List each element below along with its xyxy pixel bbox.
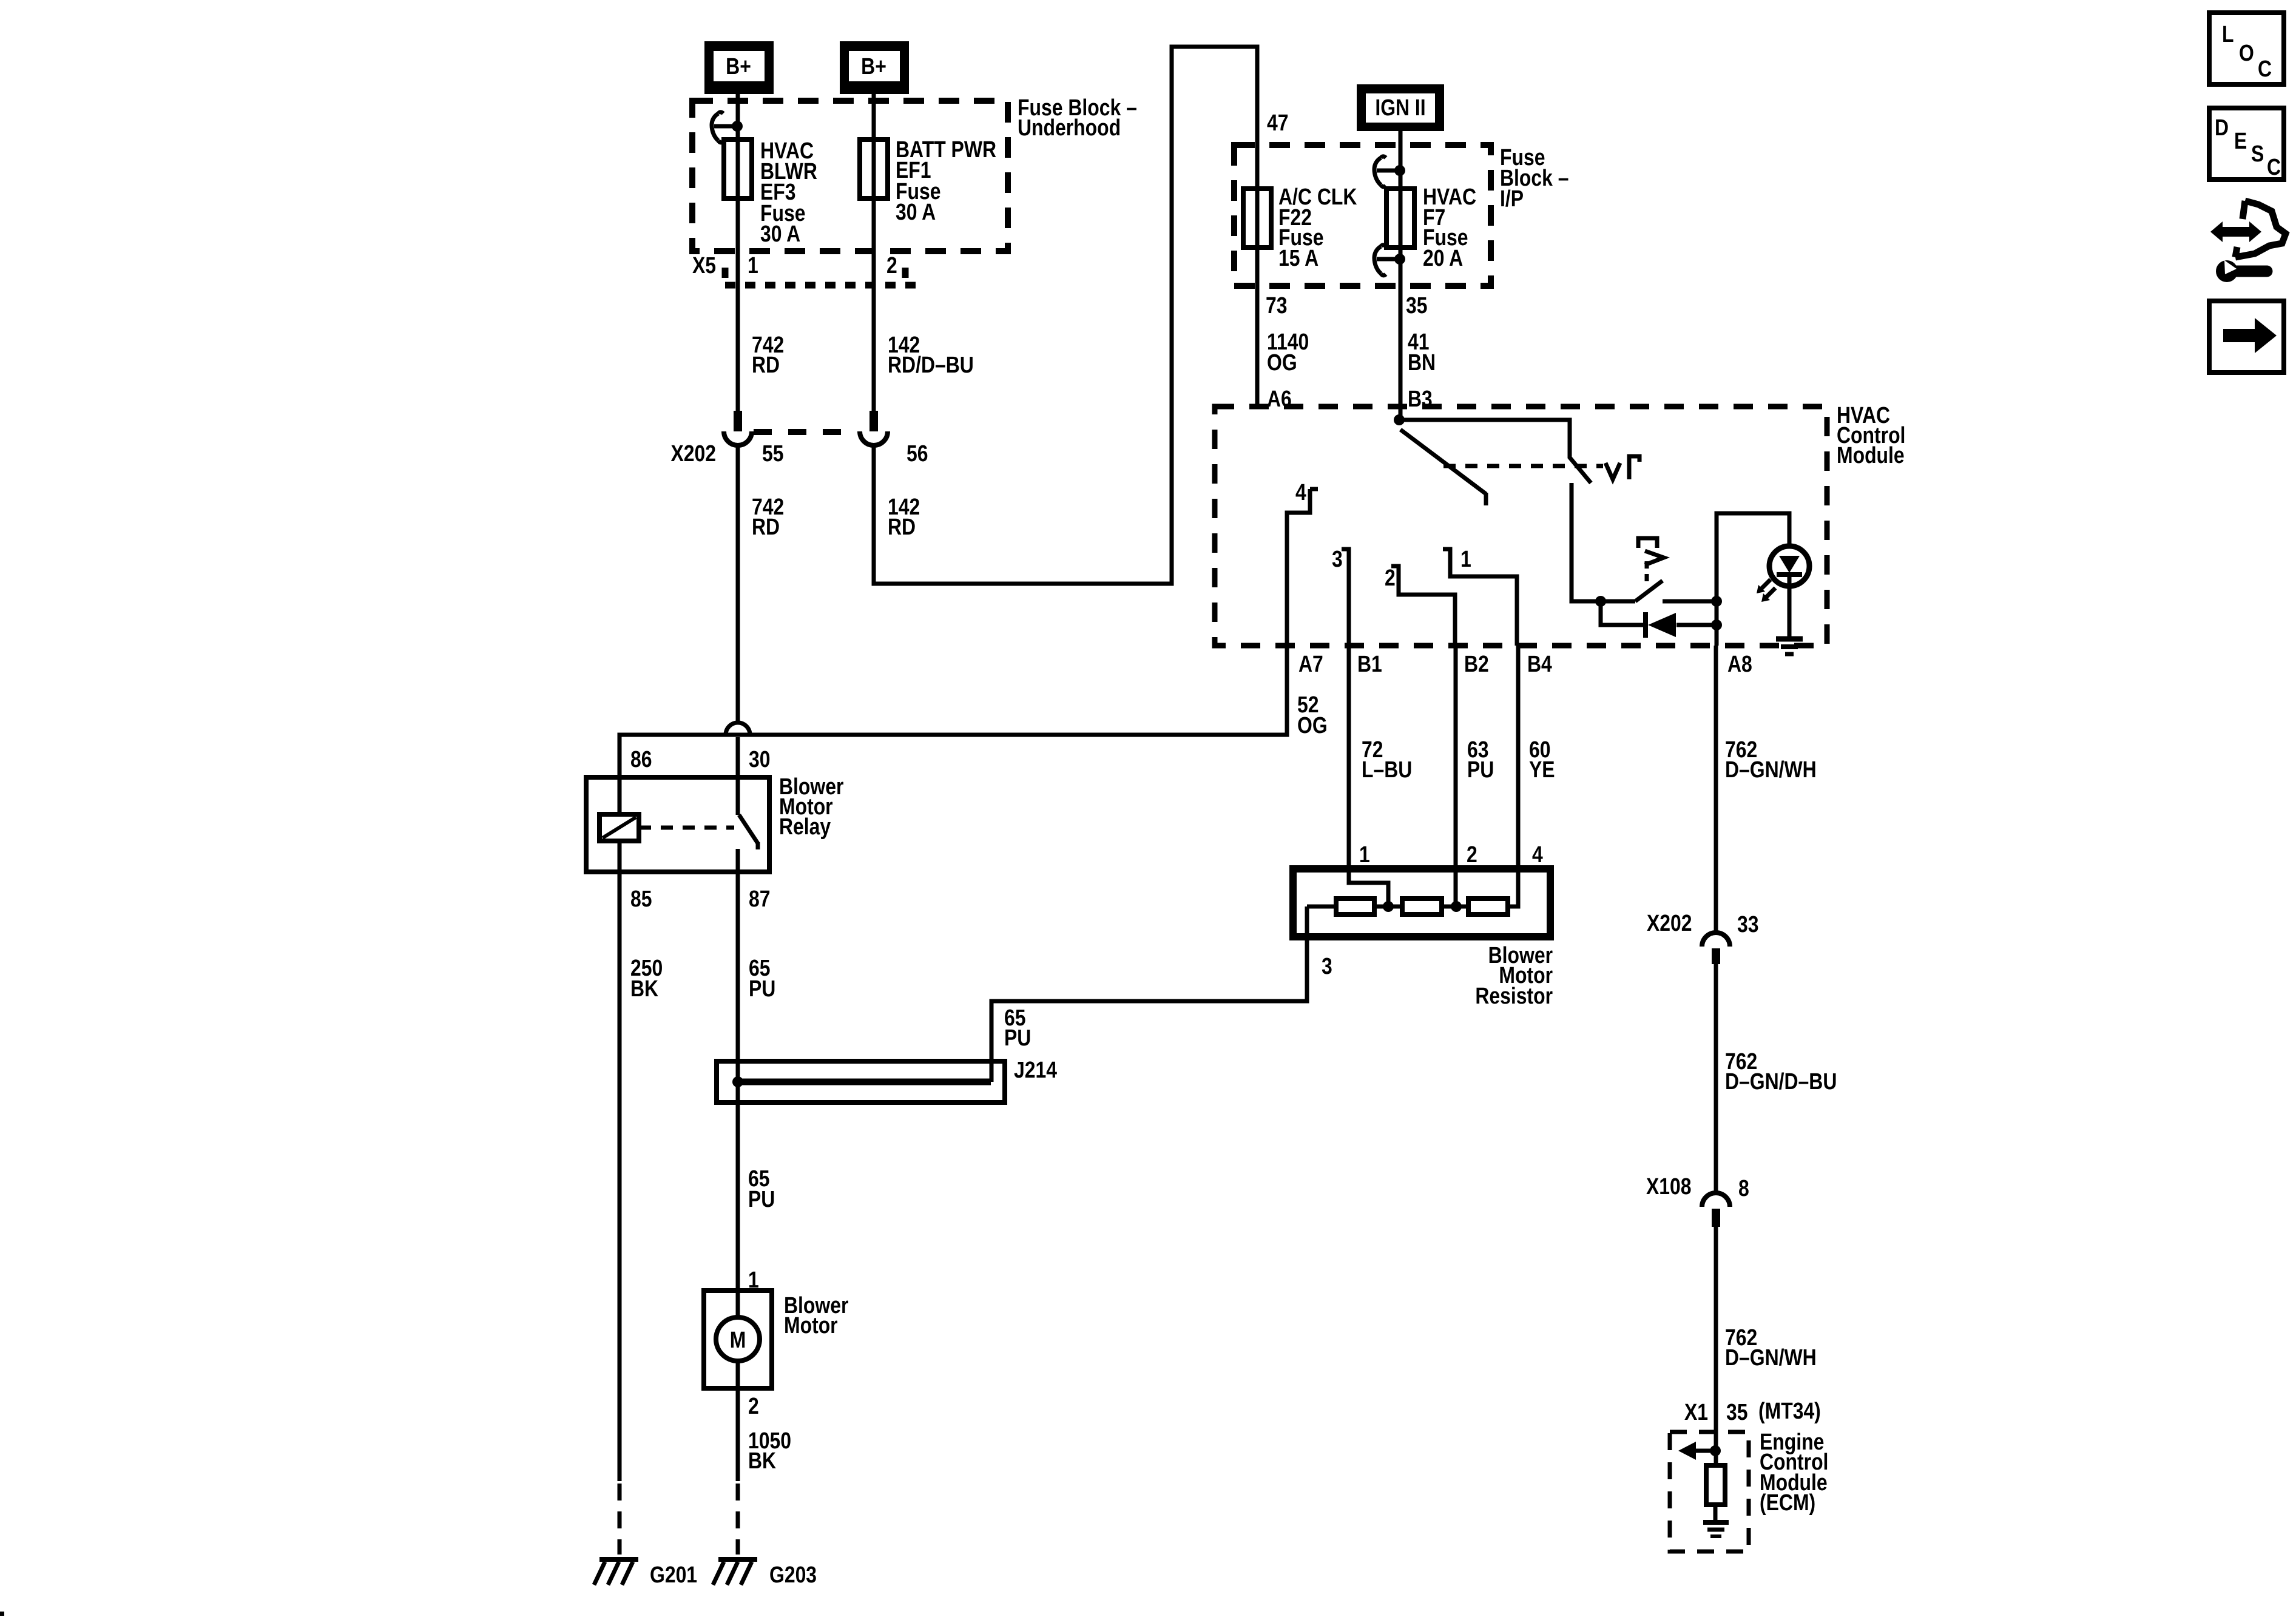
svg-text:S: S — [2251, 141, 2264, 166]
svg-text:IGN II: IGN II — [1375, 95, 1425, 120]
svg-text:35: 35 — [1726, 1399, 1748, 1425]
svg-text:D–GN/WH: D–GN/WH — [1725, 757, 1817, 782]
svg-text:47: 47 — [1267, 110, 1289, 135]
svg-text:O: O — [2239, 40, 2254, 66]
svg-text:L: L — [2222, 21, 2234, 47]
svg-text:RD: RD — [752, 514, 780, 539]
svg-text:B2: B2 — [1464, 651, 1489, 677]
svg-text:4: 4 — [1532, 842, 1543, 867]
svg-text:3: 3 — [1322, 953, 1332, 979]
svg-text:PU: PU — [1467, 757, 1494, 782]
svg-text:87: 87 — [749, 886, 771, 911]
svg-text:A8: A8 — [1727, 651, 1752, 677]
svg-text:YE: YE — [1529, 757, 1555, 782]
svg-text:2: 2 — [748, 1393, 759, 1419]
svg-text:30 A: 30 A — [896, 199, 936, 224]
svg-text:1: 1 — [1359, 842, 1370, 867]
svg-text:Resistor: Resistor — [1475, 983, 1553, 1008]
svg-text:B+: B+ — [861, 53, 886, 79]
svg-text:PU: PU — [1004, 1025, 1031, 1050]
svg-text:L–BU: L–BU — [1362, 757, 1412, 782]
svg-text:30: 30 — [749, 746, 771, 772]
svg-text:B+: B+ — [726, 53, 751, 79]
svg-text:OG: OG — [1297, 712, 1328, 738]
svg-text:20 A: 20 A — [1423, 245, 1463, 271]
svg-text:1: 1 — [1460, 546, 1471, 572]
svg-text:1: 1 — [748, 252, 758, 278]
svg-text:RD/D–BU: RD/D–BU — [888, 352, 974, 377]
svg-text:C: C — [2258, 56, 2272, 81]
svg-text:BK: BK — [630, 976, 658, 1001]
svg-text:PU: PU — [749, 976, 775, 1001]
svg-text:OG: OG — [1267, 349, 1297, 375]
svg-text:X5: X5 — [692, 252, 716, 278]
svg-text:15 A: 15 A — [1278, 245, 1319, 271]
svg-text:G201: G201 — [650, 1562, 697, 1587]
svg-text:3: 3 — [1332, 546, 1343, 572]
svg-text:B1: B1 — [1357, 651, 1382, 677]
svg-text:30 A: 30 A — [760, 221, 800, 246]
svg-text:D–GN/WH: D–GN/WH — [1725, 1345, 1817, 1370]
svg-text:A7: A7 — [1298, 651, 1323, 677]
svg-text:Underhood: Underhood — [1018, 115, 1121, 140]
svg-text:C: C — [2267, 154, 2281, 180]
svg-text:4: 4 — [1295, 479, 1306, 505]
svg-text:I/P: I/P — [1500, 186, 1524, 211]
svg-text:55: 55 — [762, 441, 784, 466]
svg-text:(MT34): (MT34) — [1758, 1398, 1821, 1423]
svg-text:J214: J214 — [1014, 1057, 1057, 1082]
svg-text:BN: BN — [1408, 349, 1436, 375]
svg-text:X1: X1 — [1684, 1399, 1708, 1425]
svg-text:86: 86 — [630, 746, 652, 772]
svg-text:56: 56 — [907, 441, 928, 466]
svg-text:85: 85 — [630, 886, 652, 911]
svg-text:Module: Module — [1837, 442, 1905, 468]
svg-text:RD: RD — [752, 352, 780, 377]
svg-text:2: 2 — [886, 252, 897, 278]
svg-text:RD: RD — [888, 514, 916, 539]
svg-text:Relay: Relay — [779, 814, 831, 839]
svg-text:35: 35 — [1406, 292, 1428, 318]
svg-text:X202: X202 — [1647, 910, 1692, 936]
svg-text:D: D — [2215, 115, 2229, 140]
svg-text:E: E — [2234, 128, 2247, 154]
svg-text:BK: BK — [748, 1448, 776, 1473]
svg-text:2: 2 — [1467, 842, 1477, 867]
svg-text:G203: G203 — [769, 1562, 817, 1587]
svg-text:X108: X108 — [1646, 1173, 1692, 1199]
svg-text:8: 8 — [1738, 1175, 1749, 1201]
svg-text:2: 2 — [1385, 565, 1396, 590]
svg-text:Motor: Motor — [784, 1312, 838, 1338]
svg-text:D–GN/D–BU: D–GN/D–BU — [1725, 1068, 1837, 1094]
svg-text:(ECM): (ECM) — [1760, 1490, 1815, 1515]
svg-text:PU: PU — [748, 1186, 775, 1212]
svg-text:73: 73 — [1266, 292, 1288, 318]
svg-text:33: 33 — [1737, 911, 1759, 937]
svg-text:X202: X202 — [670, 441, 716, 466]
svg-text:B4: B4 — [1527, 651, 1552, 677]
svg-text:M: M — [730, 1327, 746, 1352]
